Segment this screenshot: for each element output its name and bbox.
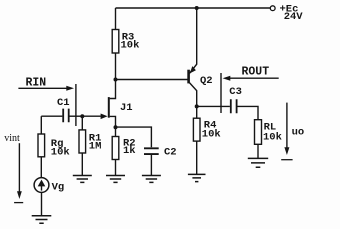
arrow vint [18, 143, 20, 192]
svg-text:24V: 24V [284, 11, 304, 23]
resistor R4 [196, 106, 198, 118]
ground under C2 [142, 176, 161, 183]
ground under RL [248, 158, 268, 167]
resistor RL [255, 120, 262, 145]
svg-text:uo: uo [292, 127, 305, 139]
arrow uo [286, 103, 288, 148]
ground under R2 [106, 176, 125, 183]
resistor Rg [40, 116, 42, 134]
port marker ROUT [220, 73, 222, 113]
port marker RIN [75, 84, 77, 126]
source Vg [34, 178, 49, 193]
transistor J1 [110, 80, 116, 99]
arrow RIN [18, 87, 66, 89]
arrow ROUT [230, 77, 279, 79]
capacitor C3 [231, 99, 237, 113]
ground under Vg [32, 216, 52, 224]
svg-text:10k: 10k [202, 128, 221, 140]
svg-text:1k: 1k [123, 145, 136, 157]
transistor Q2 [187, 70, 190, 84]
node source node [114, 125, 118, 129]
ground under R4 [188, 174, 206, 181]
svg-text:C3: C3 [229, 86, 242, 98]
ground under R1 [73, 176, 92, 183]
svg-text:10k: 10k [121, 39, 140, 51]
wire to C2 [116, 127, 152, 147]
svg-text:Q2: Q2 [200, 75, 213, 87]
wire base wire to Q2 [116, 79, 189, 81]
node emitter node [195, 104, 199, 108]
resistor R3 [115, 8, 117, 30]
svg-text:10k: 10k [51, 146, 70, 158]
svg-text:1M: 1M [89, 140, 102, 152]
capacitor C1 [41, 115, 62, 117]
resistor R1 [81, 116, 83, 130]
svg-text:ROUT: ROUT [242, 65, 270, 78]
svg-text:vint: vint [4, 133, 20, 144]
svg-text:RIN: RIN [26, 77, 47, 90]
wire gate wire [82, 115, 101, 117]
resistor R2 [115, 127, 117, 136]
svg-text:C1: C1 [57, 97, 70, 109]
svg-text:C2: C2 [164, 146, 177, 158]
node A drain node [114, 78, 118, 82]
node C1 right junction [80, 114, 84, 118]
wire output wire [197, 105, 230, 107]
terminal +Ec [270, 6, 275, 11]
svg-text:10k: 10k [263, 131, 282, 143]
capacitor C2 [144, 148, 159, 154]
wire top supply rail [116, 7, 271, 9]
svg-text:J1: J1 [120, 102, 133, 114]
svg-text:Vg: Vg [52, 182, 65, 194]
node top collector junction [195, 6, 199, 10]
